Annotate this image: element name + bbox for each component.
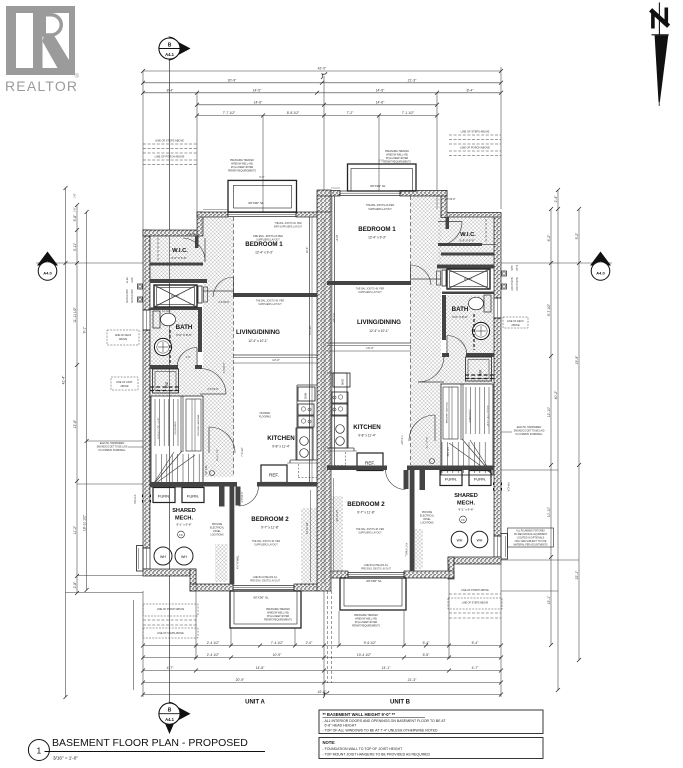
unit A living window line right bbox=[233, 355, 317, 358]
svg-text:W/D: W/D bbox=[478, 370, 482, 377]
unit A left wall window bath bbox=[143, 310, 150, 330]
svg-text:9'-1 1/2": 9'-1 1/2" bbox=[308, 325, 312, 335]
svg-text:WH: WH bbox=[160, 555, 166, 559]
svg-text:SHARED: SHARED bbox=[454, 493, 478, 499]
right dimension vertical chain inner bbox=[547, 207, 553, 647]
svg-text:ABOVE: ABOVE bbox=[119, 338, 128, 341]
svg-text:UP 14R: UP 14R bbox=[204, 465, 208, 474]
top dimension line 20'-9 / 21'-3 bbox=[141, 79, 503, 85]
unit B bottom window well bbox=[340, 578, 406, 610]
svg-text:3'-0"X6'-8": 3'-0"X6'-8" bbox=[224, 362, 226, 373]
svg-text:10'-9": 10'-9" bbox=[273, 653, 282, 657]
svg-text:BATH: BATH bbox=[176, 324, 193, 331]
svg-text:ELECTRICAL: ELECTRICAL bbox=[420, 515, 435, 518]
svg-text:LINE OF PORCH ABOVE: LINE OF PORCH ABOVE bbox=[157, 608, 185, 611]
left annotation boxes bbox=[107, 330, 151, 503]
svg-text:19'-9": 19'-9" bbox=[575, 355, 579, 364]
unit B toilet bbox=[469, 295, 492, 312]
svg-text:- TOP MOUNT JOIST HANGERS TO B: - TOP MOUNT JOIST HANGERS TO BE PROVIDED… bbox=[323, 752, 431, 756]
bottom dimension chain 2 bbox=[141, 653, 503, 659]
svg-text:21'-3": 21'-3" bbox=[408, 678, 417, 682]
svg-text:13'-8": 13'-8" bbox=[73, 419, 77, 428]
unit A water heaters bbox=[154, 547, 193, 565]
unit A label bbox=[245, 700, 265, 706]
svg-text:METER W/V: METER W/V bbox=[131, 289, 134, 303]
svg-text:2'-0": 2'-0" bbox=[306, 641, 314, 645]
svg-text:LOCATIONS: LOCATIONS bbox=[210, 534, 224, 537]
unit B bottom exterior wall bbox=[331, 571, 454, 578]
svg-text:BASEMENT FLOOR PLAN - PROPOSED: BASEMENT FLOOR PLAN - PROPOSED bbox=[52, 737, 248, 749]
unit A hatch kitchen bulkhead strip bbox=[215, 508, 317, 584]
svg-text:METER W/V: METER W/V bbox=[510, 277, 513, 291]
svg-text:FD: FD bbox=[179, 534, 182, 537]
svg-text:NOTE:: NOTE: bbox=[323, 740, 336, 745]
svg-text:42'-0": 42'-0" bbox=[318, 67, 327, 71]
right annotation boxes bbox=[493, 317, 528, 491]
svg-text:9'-1": 9'-1" bbox=[82, 326, 86, 334]
unit B bedroom2 door bbox=[386, 470, 406, 490]
svg-text:11'-2": 11'-2" bbox=[73, 525, 77, 534]
unit B bottom jog wall bbox=[448, 557, 454, 579]
svg-text:SUPPLIERS LAYOUT: SUPPLIERS LAYOUT bbox=[368, 208, 392, 211]
svg-text:(15) RISERS: (15) RISERS bbox=[175, 421, 177, 434]
svg-text:36"X60": 36"X60" bbox=[464, 279, 472, 281]
unit B bedroom1 door bbox=[411, 265, 432, 285]
svg-text:WH: WH bbox=[477, 539, 483, 543]
unit A W/D closet bbox=[150, 369, 179, 393]
unit B W/D closet bbox=[465, 357, 494, 381]
svg-text:B: B bbox=[168, 708, 172, 714]
unit B hatch corridor strip bbox=[411, 196, 442, 466]
svg-text:PERMIT REQUIREMENTS: PERMIT REQUIREMENTS bbox=[352, 626, 380, 628]
svg-text:14'-6": 14'-6" bbox=[254, 101, 263, 105]
svg-text:6'-2": 6'-2" bbox=[547, 234, 551, 242]
svg-text:®: ® bbox=[75, 73, 80, 80]
svg-text:36"pcs DEEP 48 PER: 36"pcs DEEP 48 PER bbox=[355, 622, 378, 624]
unit B bedroom2 label bbox=[347, 501, 391, 571]
unit A hall door to living bbox=[200, 369, 226, 395]
unit B WIC walls bbox=[437, 217, 496, 269]
unit B water heaters bbox=[451, 531, 488, 548]
svg-text:D/W: D/W bbox=[341, 379, 345, 385]
svg-text:2'-6"X6'-8": 2'-6"X6'-8" bbox=[207, 388, 218, 391]
svg-text:WINDOW WELL (4S): WINDOW WELL (4S) bbox=[386, 155, 408, 157]
svg-text:2'-4 1/2": 2'-4 1/2" bbox=[207, 653, 220, 657]
svg-text:9'-6 1/2": 9'-6 1/2" bbox=[364, 641, 377, 645]
unit A hatch bath area bbox=[150, 307, 203, 396]
unit A top exterior wall right part bbox=[197, 212, 317, 217]
svg-text:PERMIT REQUIREMENTS: PERMIT REQUIREMENTS bbox=[228, 171, 256, 173]
svg-text:PRE ENG JOISTS LAYOUT: PRE ENG JOISTS LAYOUT bbox=[250, 580, 280, 583]
svg-text:4'-7": 4'-7" bbox=[472, 666, 480, 670]
svg-text:5'-2": 5'-2" bbox=[575, 232, 579, 240]
svg-text:ELEC: ELEC bbox=[126, 277, 129, 284]
svg-text:14'-1": 14'-1" bbox=[382, 666, 391, 670]
section marker A/A4.0 right bbox=[501, 252, 612, 281]
unit A bedroom2 label bbox=[250, 516, 289, 583]
svg-text:14'-6": 14'-6" bbox=[376, 101, 385, 105]
svg-text:5R @ 7 7/8": 5R @ 7 7/8" bbox=[425, 437, 427, 449]
svg-text:6'-8" HEAD HEIGHT: 6'-8" HEAD HEIGHT bbox=[325, 724, 358, 728]
svg-text:9'-7 1/2": 9'-7 1/2" bbox=[547, 303, 551, 316]
bottom left dashed block bbox=[143, 604, 198, 638]
svg-text:SUPPLIERS LAYOUT: SUPPLIERS LAYOUT bbox=[254, 544, 278, 547]
window well note unit B bottom bbox=[352, 614, 380, 628]
unit A bedroom1 left dashed bulkhead bbox=[233, 217, 235, 477]
svg-text:METER W/V: METER W/V bbox=[515, 277, 518, 291]
svg-text:5'-0": 5'-0" bbox=[259, 175, 264, 179]
svg-text:THE BAL JOISTS AS PER: THE BAL JOISTS AS PER bbox=[366, 204, 394, 207]
svg-text:20'-9": 20'-9" bbox=[236, 678, 245, 682]
svg-text:METER W/V: METER W/V bbox=[126, 289, 129, 303]
svg-text:14'-5": 14'-5" bbox=[376, 89, 385, 93]
svg-text:7'-9 1/2": 7'-9 1/2" bbox=[240, 447, 244, 457]
svg-text:9'-8" x 11'-4": 9'-8" x 11'-4" bbox=[358, 434, 376, 438]
svg-text:A4.1: A4.1 bbox=[165, 52, 175, 57]
foundation note box bbox=[319, 738, 543, 759]
bottom dimension chain 4 bbox=[141, 678, 503, 684]
svg-text:18'-10 1/2": 18'-10 1/2" bbox=[82, 514, 86, 531]
top dimension line chain 3 bbox=[141, 89, 503, 95]
unit A half wall stubs bbox=[219, 487, 244, 507]
svg-text:60"X36" SL: 60"X36" SL bbox=[248, 201, 264, 205]
unit A WIC walls bbox=[150, 236, 207, 283]
svg-text:PROVIDE: PROVIDE bbox=[212, 524, 223, 526]
unit B step wall bbox=[441, 191, 447, 218]
unit B bath label bbox=[452, 306, 469, 319]
svg-text:36"pcs DEEP 48 PER: 36"pcs DEEP 48 PER bbox=[231, 167, 254, 169]
svg-text:A4.0: A4.0 bbox=[43, 271, 52, 276]
line of steps above - top left dashed bbox=[143, 139, 197, 165]
svg-text:22'-1": 22'-1" bbox=[575, 570, 579, 579]
svg-text:1'-6": 1'-6" bbox=[74, 207, 77, 212]
svg-text:10'-4 1/2": 10'-4 1/2" bbox=[357, 653, 372, 657]
unit B kitchen label bbox=[353, 424, 381, 438]
svg-text:LIVING/DINING: LIVING/DINING bbox=[357, 319, 401, 326]
unit B bottom-right exterior wall bbox=[448, 557, 501, 564]
svg-text:MATERIAL PER ADJUSTMENTS: MATERIAL PER ADJUSTMENTS bbox=[513, 544, 548, 547]
svg-text:7'-1 1/2": 7'-1 1/2" bbox=[402, 111, 415, 115]
section marker B/A4.1 bottom bbox=[159, 702, 191, 734]
line of floor above unit B bbox=[331, 187, 340, 189]
svg-text:UP 14R: UP 14R bbox=[446, 447, 450, 456]
svg-text:11'-11 1/2": 11'-11 1/2" bbox=[73, 306, 77, 322]
svg-text:36"pcs DEEP 48 PER: 36"pcs DEEP 48 PER bbox=[267, 616, 290, 618]
unit A step wall bbox=[197, 212, 203, 236]
svg-text:- ALL INTERIOR DOORS AND OPENI: - ALL INTERIOR DOORS AND OPENINGS ON BAS… bbox=[323, 719, 447, 723]
top extension lines bbox=[143, 67, 501, 230]
unit A top-left exterior wall bbox=[143, 230, 199, 236]
unit A REF bbox=[261, 465, 287, 483]
unit A joists note bbox=[256, 300, 285, 307]
svg-text:PRE ENG JOISTS LAYOUT: PRE ENG JOISTS LAYOUT bbox=[361, 568, 391, 571]
svg-text:MECH.: MECH. bbox=[457, 501, 475, 507]
svg-text:9'-1 1/2": 9'-1 1/2" bbox=[332, 313, 336, 323]
svg-text:16 R @ 7 7/8" = 9-10": 16 R @ 7 7/8" = 9-10" bbox=[486, 405, 488, 427]
left dimension vertical chain inner bbox=[73, 203, 79, 595]
unit A furnaces bbox=[153, 488, 204, 503]
svg-text:12'-4" x 9'-3": 12'-4" x 9'-3" bbox=[368, 236, 386, 240]
unit B rotated dims bbox=[332, 235, 408, 558]
unit B top wall WIC part bbox=[441, 213, 501, 218]
unit B bath walls bbox=[442, 292, 494, 358]
svg-text:WH: WH bbox=[181, 555, 187, 559]
svg-text:LINE OF DECK: LINE OF DECK bbox=[507, 320, 524, 323]
svg-text:41'-4": 41'-4" bbox=[61, 375, 65, 384]
left chain top labels bbox=[74, 193, 77, 212]
bottom dimension chain 3 bbox=[141, 666, 503, 672]
svg-text:8'-8 1/2": 8'-8 1/2" bbox=[287, 111, 300, 115]
unit A bedroom2 door bbox=[239, 487, 259, 507]
svg-text:16 R @ 7 7/8" = 9-10": 16 R @ 7 7/8" = 9-10" bbox=[158, 417, 160, 439]
svg-text:WINDOW WELL (4S): WINDOW WELL (4S) bbox=[231, 164, 253, 166]
svg-text:5'-8": 5'-8" bbox=[73, 214, 77, 222]
svg-text:14'-8": 14'-8" bbox=[256, 666, 265, 670]
svg-text:A4.0: A4.0 bbox=[596, 271, 605, 276]
unit A sink bbox=[154, 338, 171, 355]
unit B bottom window 60x36 bbox=[348, 573, 404, 584]
svg-text:8'-4": 8'-4" bbox=[467, 89, 475, 93]
line of steps above - top right dashed bbox=[449, 130, 501, 156]
plumbing note box right bbox=[508, 528, 554, 547]
svg-text:14'-5": 14'-5" bbox=[253, 89, 262, 93]
unit B stairs bbox=[425, 384, 493, 475]
bottom dimension chain 5 bbox=[141, 690, 503, 698]
unit A kitchen counter bbox=[287, 385, 317, 463]
svg-text:REF.: REF. bbox=[269, 473, 279, 478]
svg-text:MECH.: MECH. bbox=[175, 516, 193, 522]
unit B wall mech/bedroom2 divider bbox=[410, 470, 415, 571]
left meter boxes unit A bbox=[126, 277, 143, 303]
unit B WIC door bbox=[438, 198, 462, 246]
svg-text:12'-10 1/2": 12'-10 1/2" bbox=[335, 510, 339, 522]
section marker B/A4.1 top bbox=[159, 37, 191, 704]
unit A corridor door arc bbox=[209, 427, 235, 476]
unit B egress window well top bbox=[348, 164, 417, 191]
unit B REF bbox=[357, 453, 383, 471]
svg-text:3/16" = 1'-0": 3/16" = 1'-0" bbox=[53, 756, 78, 761]
svg-text:PROVIDE HANDRAIL: PROVIDE HANDRAIL bbox=[197, 413, 200, 435]
bottom extension lines bbox=[134, 564, 502, 697]
left dimension vertical chain outer bbox=[61, 186, 67, 699]
svg-text:THE BAL JOISTS 48. PER: THE BAL JOISTS 48. PER bbox=[274, 222, 302, 225]
right dimension vertical chain third bbox=[501, 207, 581, 662]
unit A laundry chase X-box bbox=[154, 285, 208, 307]
svg-text:IN COMMON STAIRWELL: IN COMMON STAIRWELL bbox=[98, 449, 126, 452]
north arrow bbox=[651, 3, 669, 107]
svg-text:1'-1 1/2": 1'-1 1/2" bbox=[162, 311, 171, 313]
svg-text:SHARED: SHARED bbox=[172, 508, 196, 514]
unit A bath label bbox=[176, 324, 193, 337]
svg-text:FURN.: FURN. bbox=[474, 477, 486, 482]
svg-text:IN COMMON STAIRWELL: IN COMMON STAIRWELL bbox=[515, 433, 543, 436]
unit B living label bbox=[357, 319, 401, 333]
unit A WIC door bbox=[183, 233, 205, 262]
unit A hatch corridor strip bbox=[203, 217, 234, 477]
unit B electrical note bbox=[420, 512, 435, 525]
svg-text:LINE OF STEPS ABOVE: LINE OF STEPS ABOVE bbox=[155, 139, 184, 143]
unit A bottom window well bbox=[230, 591, 301, 628]
section marker A/A4.0 left bbox=[36, 252, 143, 281]
svg-text:FURN.: FURN. bbox=[158, 494, 170, 499]
svg-text:ELECTR. HARDWIRED: ELECTR. HARDWIRED bbox=[517, 426, 542, 429]
svg-text:PRESSURE TREATED: PRESSURE TREATED bbox=[354, 614, 378, 617]
svg-text:BEDROOM 2: BEDROOM 2 bbox=[251, 516, 289, 523]
unit A kitchen label bbox=[267, 435, 295, 449]
top dimension line chain 5 bbox=[195, 111, 439, 117]
svg-text:REF.: REF. bbox=[365, 461, 375, 466]
svg-text:3'-11": 3'-11" bbox=[73, 242, 77, 251]
svg-text:5'-5": 5'-5" bbox=[423, 653, 431, 657]
svg-text:ABOVE: ABOVE bbox=[120, 385, 129, 388]
svg-text:LOCATED IN OPTIONALS: LOCATED IN OPTIONALS bbox=[517, 537, 545, 540]
svg-text:- TOP OF ALL WINDOWS TO BE AT: - TOP OF ALL WINDOWS TO BE AT 7'-4" UNLE… bbox=[323, 729, 439, 733]
svg-text:5'-4": 5'-4" bbox=[423, 641, 431, 645]
svg-text:W.I.C.: W.I.C. bbox=[460, 232, 476, 238]
svg-text:ELECTRICAL: ELECTRICAL bbox=[210, 527, 225, 530]
unit A bottom jog wall bbox=[190, 569, 196, 591]
svg-text:SMOKE/CO DET TO BE LAID: SMOKE/CO DET TO BE LAID bbox=[514, 430, 545, 433]
electrical appliances note right bbox=[501, 426, 545, 436]
svg-text:2'-6"X6'-8": 2'-6"X6'-8" bbox=[444, 198, 455, 201]
svg-text:40'-2": 40'-2" bbox=[554, 390, 558, 399]
unit A toilet bbox=[153, 311, 176, 328]
svg-text:SUPPLIERS LAYOUT: SUPPLIERS LAYOUT bbox=[258, 303, 282, 306]
svg-text:REALTOR: REALTOR bbox=[5, 78, 78, 94]
svg-text:2'-8"X6'-8": 2'-8"X6'-8" bbox=[242, 491, 244, 502]
electrical appliances note left bbox=[97, 442, 143, 452]
svg-text:7'-4 1/2": 7'-4 1/2" bbox=[271, 641, 284, 645]
unit B hatch WIC area bbox=[438, 217, 496, 265]
svg-text:5'-0" X 8'-6": 5'-0" X 8'-6" bbox=[452, 315, 468, 319]
unit A bedroom1 door bbox=[213, 277, 234, 304]
svg-text:12'-4" x 10'-1": 12'-4" x 10'-1" bbox=[248, 339, 268, 343]
unit B laundry chase X-box bbox=[437, 269, 491, 289]
svg-text:ALL PLUMBING FIXTURES: ALL PLUMBING FIXTURES bbox=[516, 530, 545, 533]
REALTOR logo block bbox=[6, 6, 75, 75]
unit A shared mech label bbox=[172, 508, 196, 538]
unit B joists note bbox=[356, 288, 385, 295]
svg-text:4'-0" H WALL: 4'-0" H WALL bbox=[405, 543, 408, 557]
svg-text:1'-6": 1'-6" bbox=[74, 193, 77, 198]
unit B right wall window mech + well bbox=[494, 534, 508, 560]
svg-text:36"pcs DEEP 48 PER: 36"pcs DEEP 48 PER bbox=[386, 158, 409, 160]
svg-text:12'-10 1/2": 12'-10 1/2" bbox=[305, 522, 309, 534]
unit A stairs bbox=[151, 396, 219, 487]
right dimension vertical chain outer bbox=[554, 188, 560, 692]
svg-text:WH: WH bbox=[457, 539, 463, 543]
unit B furnaces bbox=[440, 471, 491, 486]
svg-text:LINE OF STEPS ABOVE: LINE OF STEPS ABOVE bbox=[157, 632, 184, 635]
unit B hall door to living bbox=[418, 357, 444, 383]
unit A top window 60x36 bbox=[228, 213, 296, 217]
svg-text:FINISHED: FINISHED bbox=[260, 413, 271, 415]
svg-text:10'-9": 10'-9" bbox=[305, 247, 309, 254]
svg-text:B: B bbox=[168, 43, 172, 49]
window well note unit B top bbox=[383, 150, 411, 164]
unit B half wall stubs bbox=[404, 470, 426, 490]
unit A bath bulkhead dashes bbox=[169, 330, 171, 364]
unit B bedroom1 right dashed bulkhead bbox=[410, 196, 412, 465]
svg-text:PA-CA: PA-CA bbox=[133, 495, 137, 504]
svg-text:13'-1": 13'-1" bbox=[547, 595, 551, 604]
svg-text:PANEL: PANEL bbox=[423, 518, 431, 521]
svg-text:7'-9 1/2": 7'-9 1/2" bbox=[400, 435, 404, 445]
svg-text:9'-1" x 9'-6": 9'-1" x 9'-6" bbox=[176, 523, 191, 527]
svg-text:20'-9": 20'-9" bbox=[228, 79, 237, 83]
svg-text:** BASEMENT WALL HEIGHT 9'-0": ** BASEMENT WALL HEIGHT 9'-0" ** bbox=[323, 712, 396, 717]
unit A bottom-left exterior wall bbox=[143, 569, 196, 576]
svg-text:PRESSURE TREATED: PRESSURE TREATED bbox=[266, 608, 290, 611]
electrical panel note unit A bbox=[259, 413, 271, 419]
svg-text:5'-9" X 5'-0": 5'-9" X 5'-0" bbox=[459, 239, 474, 243]
unit A bath door bbox=[177, 348, 197, 368]
unit B bedroom1 bottom wall bbox=[327, 279, 441, 285]
svg-text:PROVIDE HANDRAIL: PROVIDE HANDRAIL bbox=[445, 402, 448, 424]
svg-text:8'-4": 8'-4" bbox=[167, 89, 175, 93]
svg-text:2'-0": 2'-0" bbox=[186, 356, 191, 359]
svg-text:21'-3": 21'-3" bbox=[408, 79, 417, 83]
svg-text:7'-7 1/2": 7'-7 1/2" bbox=[223, 111, 236, 115]
window well note unit A bottom bbox=[264, 608, 292, 622]
unit A bedroom1 label bbox=[245, 222, 302, 255]
svg-text:NO MECHANICAL EQUIPMENT: NO MECHANICAL EQUIPMENT bbox=[514, 533, 548, 536]
svg-text:ELEC: ELEC bbox=[515, 265, 518, 272]
unit B living window line bbox=[327, 343, 411, 346]
unit B furring wall at party bbox=[332, 196, 335, 466]
svg-text:7'-2": 7'-2" bbox=[347, 111, 355, 115]
REALTOR word bbox=[5, 73, 80, 94]
svg-text:2'-4": 2'-4" bbox=[554, 195, 558, 203]
top dimension line chain 4 bbox=[195, 101, 439, 107]
svg-text:GAS: GAS bbox=[131, 277, 134, 282]
svg-text:KITCHEN: KITCHEN bbox=[353, 424, 381, 431]
unit A egress window well top bbox=[228, 180, 297, 212]
unit A wall mech/bedroom2 divider bbox=[230, 487, 235, 585]
bottom right dashed block bbox=[448, 589, 502, 618]
unit A furring wall at party bbox=[310, 217, 313, 482]
unit B bedroom1 label bbox=[358, 204, 396, 239]
unit A bath walls bbox=[150, 307, 202, 369]
unit A wall mech-bedroom2 bbox=[150, 482, 317, 487]
unit B sink bbox=[472, 322, 489, 339]
svg-text:W.I.C.: W.I.C. bbox=[172, 248, 188, 254]
svg-text:36"X60": 36"X60" bbox=[171, 296, 179, 298]
svg-text:9'-7" x 11'-8": 9'-7" x 11'-8" bbox=[261, 526, 279, 530]
svg-text:5R @ 7 7/8": 5R @ 7 7/8" bbox=[217, 449, 219, 461]
unit A left exterior wall bbox=[143, 230, 150, 548]
svg-text:12'-4" x 10'-1": 12'-4" x 10'-1" bbox=[369, 329, 389, 333]
svg-text:ONLY ARE SUBJECT TO SITE: ONLY ARE SUBJECT TO SITE bbox=[515, 540, 547, 543]
unit B wall mech-bedroom2 bbox=[327, 466, 494, 471]
unit B top exterior wall bbox=[331, 191, 447, 197]
svg-text:9'-7" x 11'-8": 9'-7" x 11'-8" bbox=[357, 511, 375, 515]
party wall bbox=[317, 190, 331, 591]
unit B WIC label bbox=[459, 232, 476, 243]
unit A kitchen corner dashed bbox=[298, 464, 317, 478]
egress well dims bbox=[259, 159, 383, 180]
svg-text:5'-4": 5'-4" bbox=[472, 641, 480, 645]
svg-text:LINE OF PORCH ABOVE: LINE OF PORCH ABOVE bbox=[155, 155, 185, 159]
unit B top window 60x36 bbox=[340, 191, 400, 196]
svg-text:BATH: BATH bbox=[452, 306, 469, 313]
svg-text:13'-0": 13'-0" bbox=[272, 358, 280, 362]
svg-text:WINDOW WELL (4S): WINDOW WELL (4S) bbox=[267, 613, 289, 615]
unit B interior dim 13-0 bbox=[327, 346, 411, 351]
line of floor above unit A bbox=[203, 209, 228, 211]
svg-text:LIVING/DINING: LIVING/DINING bbox=[236, 329, 280, 336]
svg-text:LINE OF CANT.: LINE OF CANT. bbox=[116, 381, 133, 384]
